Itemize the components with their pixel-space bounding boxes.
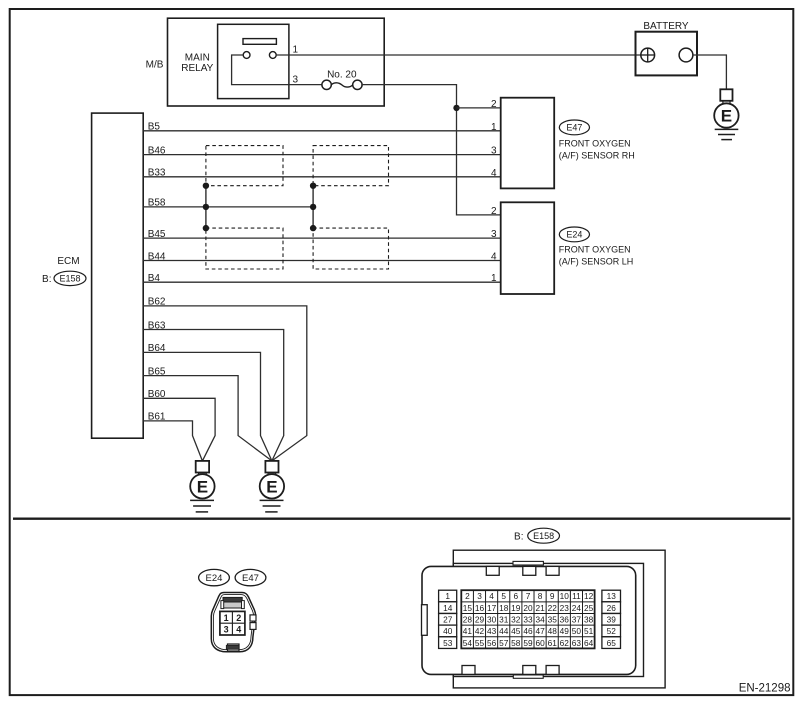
svg-text:55: 55 <box>475 638 485 648</box>
shell notch top <box>513 561 543 565</box>
wire B61 <box>143 412 202 461</box>
svg-text:12: 12 <box>584 591 594 601</box>
shield dashed box upper right <box>313 146 388 186</box>
svg-text:1: 1 <box>491 122 497 133</box>
wire B64 <box>143 343 272 461</box>
svg-text:29: 29 <box>475 615 485 625</box>
wire B5 <box>143 122 501 133</box>
svg-text:65: 65 <box>607 638 617 648</box>
svg-text:15: 15 <box>463 603 473 613</box>
wire contact to pin 3 <box>232 55 289 85</box>
shield left vertical wire <box>205 186 207 228</box>
connector latch hatched cap <box>223 597 242 602</box>
ground E left (B60/B61) <box>190 461 214 512</box>
svg-text:33: 33 <box>523 615 533 625</box>
svg-text:45: 45 <box>511 626 521 636</box>
svg-text:7: 7 <box>526 591 531 601</box>
svg-text:4: 4 <box>491 168 497 179</box>
svg-text:58: 58 <box>511 638 521 648</box>
svg-text:18: 18 <box>499 603 509 613</box>
connector left latch <box>422 605 428 636</box>
wire relay pin1 to battery <box>276 54 641 56</box>
svg-text:40: 40 <box>443 626 453 636</box>
svg-text:BATTERY: BATTERY <box>643 21 689 32</box>
wire B65 <box>143 366 272 461</box>
svg-text:E158: E158 <box>59 274 80 284</box>
sensor FRONT OXYGEN LH connector E24 <box>491 202 633 294</box>
svg-text:47: 47 <box>535 626 545 636</box>
svg-text:2: 2 <box>465 591 470 601</box>
svg-text:30: 30 <box>487 615 497 625</box>
svg-text:E158: E158 <box>533 531 554 541</box>
svg-text:34: 34 <box>535 615 545 625</box>
label E24 bottom <box>199 569 230 585</box>
svg-text:51: 51 <box>584 626 594 636</box>
svg-text:20: 20 <box>523 603 533 613</box>
svg-text:19: 19 <box>511 603 521 613</box>
label E47 bottom <box>235 569 266 585</box>
svg-text:39: 39 <box>607 615 617 625</box>
svg-text:59: 59 <box>523 638 533 648</box>
svg-text:23: 23 <box>560 603 570 613</box>
ground E battery <box>714 89 738 139</box>
svg-text:2: 2 <box>236 613 241 623</box>
wire B4 <box>143 273 501 284</box>
shell notch bottom <box>513 675 543 678</box>
svg-text:E47: E47 <box>566 123 582 133</box>
wire B62 <box>143 297 307 461</box>
svg-text:B:: B: <box>42 274 51 285</box>
connector E158 body <box>422 566 636 674</box>
connector tab bottom 1 <box>462 666 475 675</box>
svg-text:16: 16 <box>475 603 485 613</box>
section divider <box>13 518 791 520</box>
connector tab top 3 <box>546 566 559 575</box>
svg-text:5: 5 <box>501 591 506 601</box>
svg-text:35: 35 <box>548 615 558 625</box>
fuse box M/B <box>146 18 385 106</box>
svg-text:50: 50 <box>572 626 582 636</box>
svg-text:M/B: M/B <box>146 59 164 70</box>
svg-text:9: 9 <box>550 591 555 601</box>
svg-text:17: 17 <box>487 603 497 613</box>
shield dashed box lower right <box>313 228 388 269</box>
pin block 2-12 / 54-64 <box>461 590 594 648</box>
svg-text:1: 1 <box>224 613 229 623</box>
shield right vertical wire <box>312 186 314 228</box>
connector tab bottom 2 <box>523 666 536 675</box>
connector tab top 2 <box>523 566 536 575</box>
relay coil <box>243 39 276 45</box>
svg-text:48: 48 <box>548 626 558 636</box>
svg-text:1: 1 <box>445 591 450 601</box>
svg-text:4: 4 <box>489 591 494 601</box>
svg-text:E: E <box>266 477 277 496</box>
svg-text:E: E <box>721 107 732 126</box>
wire relay pin3 to fuse <box>289 84 322 86</box>
svg-text:31: 31 <box>499 615 509 625</box>
svg-text:E47: E47 <box>242 573 259 584</box>
svg-text:(A/F) SENSOR RH: (A/F) SENSOR RH <box>559 151 635 161</box>
ECM box <box>42 113 143 438</box>
svg-text:3: 3 <box>477 591 482 601</box>
pin column 1/14/27/40/53 <box>439 590 457 648</box>
svg-text:26: 26 <box>607 603 617 613</box>
svg-text:14: 14 <box>443 603 453 613</box>
svg-text:E24: E24 <box>566 230 582 240</box>
wire fuse to node, down to sensors <box>361 85 500 215</box>
svg-text:1: 1 <box>491 273 497 284</box>
svg-text:B:: B: <box>514 531 523 542</box>
svg-text:44: 44 <box>499 626 509 636</box>
svg-text:38: 38 <box>584 615 594 625</box>
svg-text:56: 56 <box>487 638 497 648</box>
wire B63 <box>143 320 284 461</box>
junction dot node <box>453 105 459 111</box>
svg-text:RELAY: RELAY <box>181 63 213 74</box>
svg-text:63: 63 <box>572 638 582 648</box>
shield dashed box lower left <box>206 228 283 269</box>
svg-text:3: 3 <box>224 625 229 635</box>
svg-text:4: 4 <box>491 252 497 263</box>
svg-text:EN-21298: EN-21298 <box>739 682 791 694</box>
svg-text:46: 46 <box>523 626 533 636</box>
svg-text:ECM: ECM <box>57 256 79 267</box>
wire node to RH sensor pin 2 <box>457 107 501 109</box>
svg-text:FRONT OXYGEN: FRONT OXYGEN <box>559 245 631 255</box>
svg-text:2: 2 <box>491 99 497 110</box>
svg-text:52: 52 <box>607 626 617 636</box>
svg-text:8: 8 <box>538 591 543 601</box>
svg-text:24: 24 <box>572 603 582 613</box>
svg-text:36: 36 <box>560 615 570 625</box>
svg-text:4: 4 <box>236 625 241 635</box>
svg-text:62: 62 <box>560 638 570 648</box>
label B: E158 bottom <box>514 528 559 543</box>
svg-text:11: 11 <box>572 591 581 601</box>
connector tab bottom 3 <box>546 666 559 675</box>
svg-text:E: E <box>197 477 208 496</box>
svg-text:41: 41 <box>463 626 473 636</box>
svg-text:3: 3 <box>293 74 299 85</box>
wire B33 <box>143 168 501 179</box>
relay MAIN RELAY <box>181 24 298 98</box>
relay contact pins <box>243 52 250 59</box>
svg-text:2: 2 <box>491 206 497 217</box>
wire B45 <box>143 229 501 240</box>
pin column 13/26/39/52/65 <box>602 590 621 648</box>
wire B60 <box>143 389 215 461</box>
svg-text:6: 6 <box>513 591 518 601</box>
svg-text:64: 64 <box>584 638 594 648</box>
svg-text:3: 3 <box>491 146 497 157</box>
svg-text:37: 37 <box>572 615 582 625</box>
shield dashed box upper left <box>206 146 283 186</box>
svg-text:25: 25 <box>584 603 594 613</box>
svg-text:FRONT OXYGEN: FRONT OXYGEN <box>559 139 631 149</box>
pin grid 2x2 <box>250 615 256 621</box>
wire battery to ground <box>693 55 727 89</box>
connector E24/E47 face view <box>211 593 256 652</box>
svg-text:42: 42 <box>475 626 485 636</box>
svg-text:57: 57 <box>499 638 509 648</box>
svg-text:(A/F) SENSOR LH: (A/F) SENSOR LH <box>559 257 634 267</box>
svg-text:28: 28 <box>463 615 473 625</box>
svg-text:21: 21 <box>535 603 545 613</box>
wire B58 shield drain <box>143 198 313 209</box>
junction dots shield <box>203 183 209 189</box>
battery <box>636 21 698 75</box>
svg-text:49: 49 <box>560 626 570 636</box>
fuse No. 20 <box>322 69 362 89</box>
connector E158 shell inner <box>453 563 643 676</box>
connector E158 shell outer <box>453 550 665 688</box>
svg-text:54: 54 <box>463 638 473 648</box>
svg-text:32: 32 <box>511 615 521 625</box>
svg-text:13: 13 <box>607 591 617 601</box>
svg-text:43: 43 <box>487 626 497 636</box>
svg-text:3: 3 <box>491 229 497 240</box>
wire B46 <box>143 145 501 156</box>
ground E right (B62-B65) <box>260 461 284 512</box>
svg-text:53: 53 <box>443 638 453 648</box>
svg-text:10: 10 <box>560 591 570 601</box>
wire B44 <box>143 251 501 262</box>
svg-text:No. 20: No. 20 <box>327 69 357 80</box>
svg-text:E24: E24 <box>206 573 223 584</box>
connector bottom tab <box>228 644 240 651</box>
svg-text:61: 61 <box>548 638 558 648</box>
svg-text:60: 60 <box>535 638 545 648</box>
svg-text:27: 27 <box>443 615 453 625</box>
connector tab top 1 <box>486 566 499 575</box>
svg-text:1: 1 <box>293 45 299 56</box>
sensor FRONT OXYGEN RH connector E47 <box>491 98 635 189</box>
svg-text:22: 22 <box>548 603 558 613</box>
